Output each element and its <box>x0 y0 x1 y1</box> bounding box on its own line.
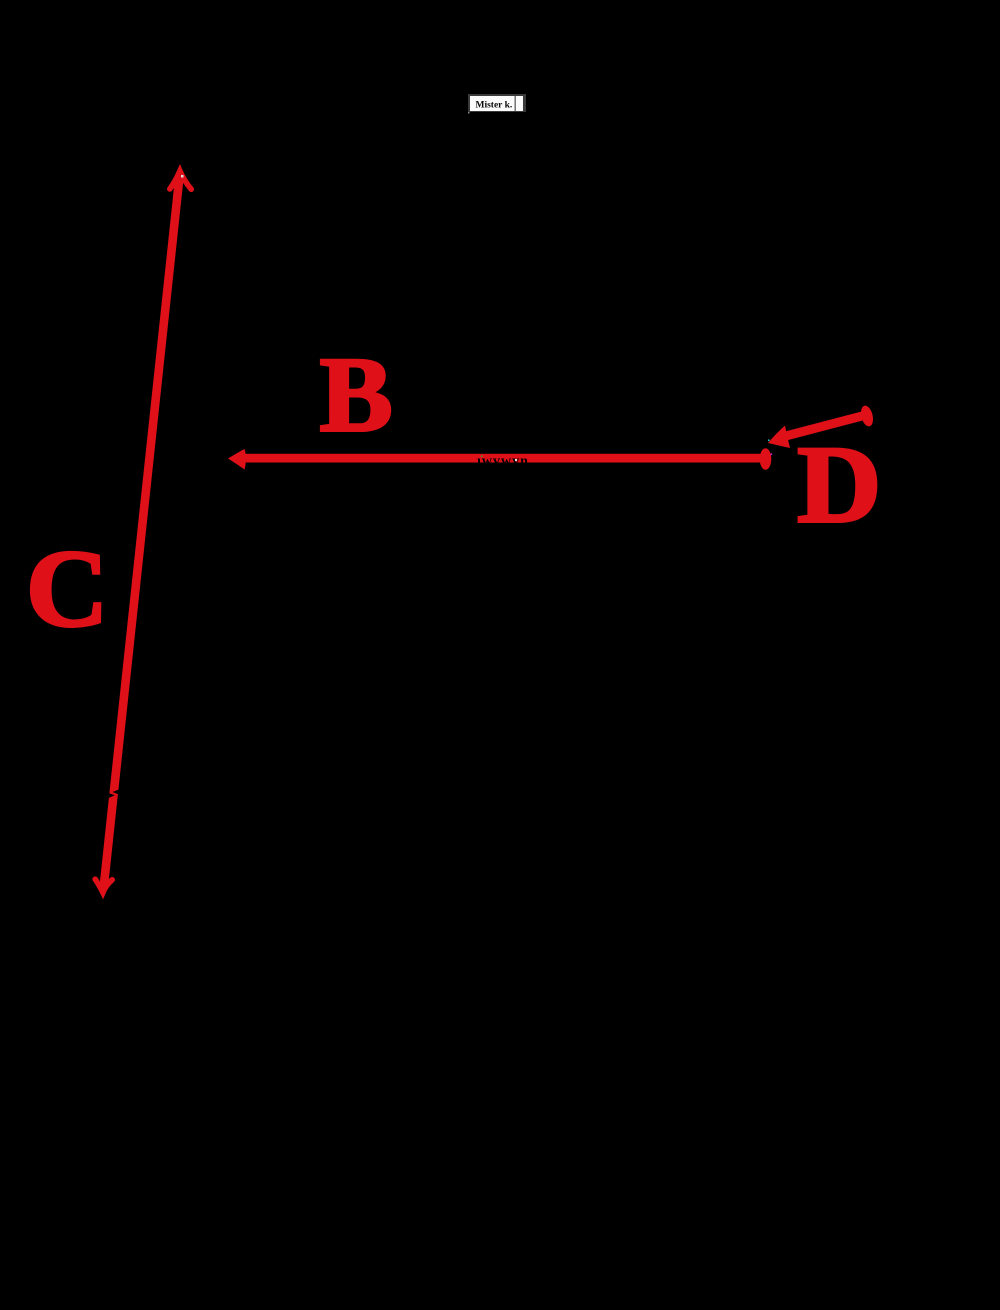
cyan speck near D arrowhead <box>768 440 770 442</box>
arrow C shaft <box>104 178 180 888</box>
arrow D left arrowhead <box>768 426 790 449</box>
arrow B shaft <box>236 454 762 463</box>
svg-text:C: C <box>26 528 109 650</box>
svg-text:Mister k.: Mister k. <box>476 101 513 111</box>
white speck at C arrow tip <box>181 175 184 178</box>
name box frame <box>468 94 526 112</box>
arrow B right bar <box>760 448 772 470</box>
white speck on arrow B text <box>515 459 517 461</box>
black crossing mark on arrow C <box>106 789 122 800</box>
svg-text:B: B <box>320 337 393 454</box>
label B <box>320 337 393 454</box>
magenta speck near D arrowhead <box>771 454 773 456</box>
green speck on arrow B text <box>481 456 483 458</box>
label D <box>797 423 881 545</box>
name box divider <box>515 96 516 111</box>
label C <box>26 528 109 650</box>
svg-text:ıwṿẉṿn̦: ıwṿẉṿn̦ <box>477 454 529 470</box>
arrow C bottom arrowhead <box>95 879 112 892</box>
gray speck at name box corner <box>468 112 470 114</box>
arrow D shaft <box>780 416 864 438</box>
arrow C top arrowhead <box>170 171 192 189</box>
svg-text:D: D <box>797 423 881 545</box>
arrow B left arrowhead <box>228 449 246 470</box>
arrow D right bar <box>859 404 875 427</box>
